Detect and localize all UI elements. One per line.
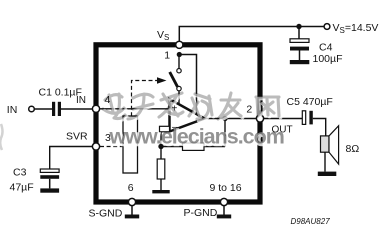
- wire pin 9-16 to ground: [223, 206, 225, 215]
- node pin 1: [177, 52, 182, 57]
- switch top contact: [177, 69, 181, 73]
- resistor feedback: [183, 143, 205, 150]
- capacitor C3: [40, 169, 59, 188]
- svg-text:4: 4: [105, 94, 111, 106]
- watermark chinese characters: [103, 93, 281, 121]
- pin 9 to 16: [220, 198, 227, 205]
- internal ground: [152, 190, 169, 193]
- svg-text:8Ω: 8Ω: [346, 143, 360, 155]
- svg-text:IN: IN: [7, 104, 17, 116]
- svg-text:C5 470µF: C5 470µF: [287, 96, 333, 108]
- svg-text:P-GND: P-GND: [184, 207, 218, 219]
- wire pin 3 to C3: [50, 147, 93, 170]
- wire pin 4 to non-inverting input: [100, 108, 170, 110]
- wire C4 branch: [298, 27, 300, 39]
- wire pin 2 to C5: [264, 118, 303, 120]
- wire inverting input down: [160, 132, 162, 147]
- wire IN to C1: [34, 108, 52, 110]
- node supply junction: [296, 24, 301, 29]
- pin 6: [128, 198, 135, 205]
- wire speaker to ground: [324, 152, 326, 171]
- ground P-GND: [217, 215, 231, 219]
- node output junction: [222, 116, 227, 121]
- wire output to feedback: [224, 119, 226, 147]
- svg-text:+: +: [172, 104, 178, 115]
- svg-text:1: 1: [164, 49, 170, 61]
- capacitor C1: [52, 102, 61, 116]
- svg-text:www.elecians.com: www.elecians.com: [109, 125, 284, 149]
- svg-text:100µF: 100µF: [313, 53, 343, 65]
- wire feedback: [161, 146, 225, 148]
- dashed control line: [132, 81, 158, 130]
- op-amp U1 triangle: [170, 99, 205, 132]
- svg-text:VS=14.5V: VS=14.5V: [333, 22, 379, 35]
- terminal IN: [29, 106, 35, 112]
- svg-text:SVR: SVR: [66, 130, 88, 142]
- wire resistor to ground: [160, 179, 162, 190]
- resistor gain to ground: [157, 159, 165, 179]
- svg-text:IN: IN: [76, 95, 86, 106]
- wire top supply rail: [179, 27, 324, 43]
- watermark edge fragment: [0, 124, 2, 150]
- svg-text:2: 2: [246, 104, 252, 116]
- dashed line SVR to divider: [100, 146, 123, 148]
- capacitor C4: [290, 39, 309, 60]
- wire switch to amp input: [178, 91, 180, 105]
- pin 2: [256, 115, 263, 122]
- svg-text:S-GND: S-GND: [89, 208, 123, 220]
- svg-text:D98AU827: D98AU827: [291, 217, 331, 226]
- resistor at inverting input: [160, 126, 170, 132]
- wire to gain resistor: [160, 147, 162, 160]
- switch lever (mute switch): [170, 72, 178, 87]
- speaker LS1: [321, 126, 339, 164]
- wire pin 6 to ground: [131, 206, 133, 215]
- capacitor C5: [302, 111, 313, 125]
- ground below speaker: [318, 172, 337, 176]
- wire amp output to pin 2: [205, 118, 261, 120]
- wire pin1 to amp supply: [179, 55, 196, 114]
- wire C1 to pin 4: [61, 108, 93, 110]
- arrowhead control: [157, 77, 167, 84]
- svg-text:C4: C4: [319, 42, 333, 54]
- ground below C3: [40, 188, 59, 192]
- IC block U1 outline: [96, 45, 260, 202]
- wire pin1 to switch: [178, 57, 180, 69]
- watermark www.elecians.com: [109, 125, 286, 151]
- pin 4: [92, 105, 99, 112]
- svg-text:C3: C3: [13, 167, 27, 179]
- svg-text:9 to 16: 9 to 16: [210, 182, 242, 194]
- switch bottom contact: [177, 86, 181, 90]
- pin 3: [92, 143, 99, 150]
- pin VS (top): [176, 41, 183, 48]
- node feedback junction: [158, 144, 163, 149]
- svg-text:47µF: 47µF: [10, 182, 34, 194]
- svg-text:6: 6: [128, 182, 134, 194]
- ground S-GND: [125, 215, 139, 219]
- terminal VS supply: [324, 24, 330, 30]
- wire C5 to speaker: [313, 119, 326, 136]
- resistor block (bias divider): [123, 116, 138, 173]
- ground below C4: [290, 60, 310, 64]
